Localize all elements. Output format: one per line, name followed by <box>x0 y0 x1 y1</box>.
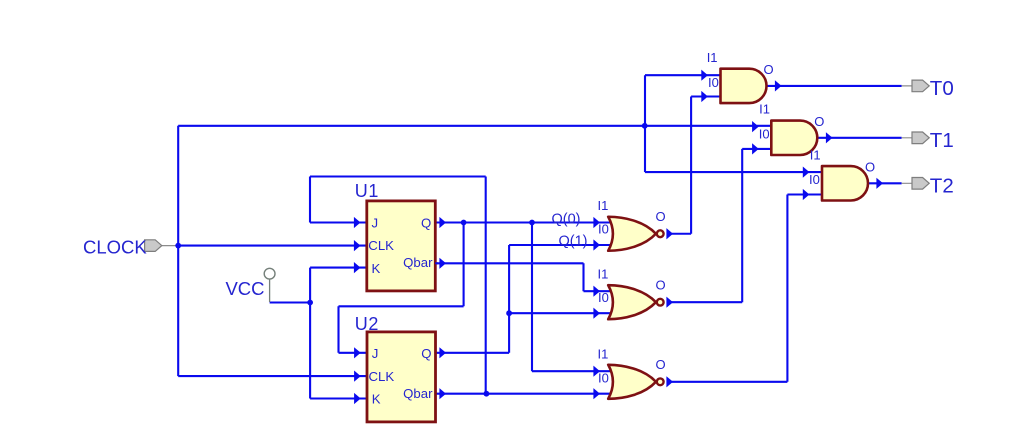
svg-text:Qbar: Qbar <box>403 386 433 401</box>
svg-text:I0: I0 <box>759 126 770 141</box>
svg-text:O: O <box>764 62 774 77</box>
svg-text:I0: I0 <box>598 222 609 237</box>
svg-text:J: J <box>372 216 379 231</box>
svg-text:VCC: VCC <box>225 278 264 299</box>
svg-text:T0: T0 <box>930 77 954 100</box>
svg-text:I0: I0 <box>809 172 820 187</box>
svg-text:T1: T1 <box>930 129 954 152</box>
svg-text:I0: I0 <box>708 75 719 90</box>
svg-text:K: K <box>372 261 381 276</box>
svg-text:O: O <box>655 277 665 292</box>
svg-text:Qbar: Qbar <box>403 255 433 270</box>
svg-text:I1: I1 <box>598 267 609 282</box>
svg-text:K: K <box>372 392 381 407</box>
svg-text:O: O <box>865 159 875 174</box>
svg-text:U2: U2 <box>355 314 379 334</box>
svg-text:Q: Q <box>421 216 431 231</box>
svg-text:I0: I0 <box>598 370 609 385</box>
svg-text:CLK: CLK <box>369 369 395 384</box>
svg-text:I1: I1 <box>707 50 718 65</box>
svg-text:Q(1): Q(1) <box>559 234 588 250</box>
svg-text:CLOCK: CLOCK <box>83 237 147 258</box>
svg-text:T2: T2 <box>930 175 954 198</box>
svg-text:I0: I0 <box>598 290 609 305</box>
svg-text:CLK: CLK <box>368 238 394 253</box>
svg-text:Q: Q <box>421 346 431 361</box>
svg-text:I1: I1 <box>598 347 609 362</box>
svg-text:O: O <box>814 114 824 129</box>
svg-text:I1: I1 <box>759 102 770 117</box>
svg-text:Q(0): Q(0) <box>552 211 581 227</box>
svg-text:U1: U1 <box>355 181 379 201</box>
svg-text:I1: I1 <box>810 147 821 162</box>
svg-text:I1: I1 <box>598 198 609 213</box>
svg-text:O: O <box>655 209 665 224</box>
svg-text:J: J <box>372 346 379 361</box>
svg-text:O: O <box>655 357 665 372</box>
